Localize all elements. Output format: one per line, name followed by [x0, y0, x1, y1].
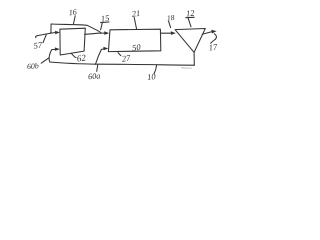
svg-text:15: 15	[100, 13, 110, 24]
svg-text:16: 16	[68, 7, 77, 17]
svg-text:12: 12	[186, 8, 196, 19]
svg-text:60b: 60b	[27, 61, 40, 71]
svg-text:21: 21	[131, 8, 141, 19]
svg-text:60a: 60a	[88, 71, 101, 81]
svg-text:18: 18	[166, 13, 175, 23]
